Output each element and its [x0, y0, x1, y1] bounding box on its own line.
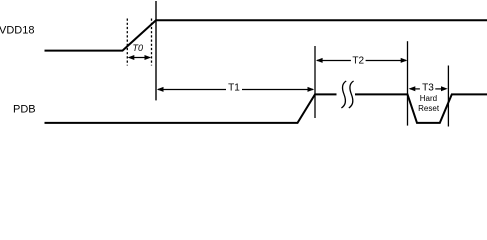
marker line at PDB fall (T2 end / T3 start) — [407, 41, 409, 125]
svg-text:T0: T0 — [133, 43, 144, 53]
label Hard Reset — [418, 94, 440, 113]
svg-text:PDB: PDB — [13, 103, 36, 115]
marker line at PDB recover (T3 end) — [447, 66, 449, 127]
wire VDD18 waveform — [45, 20, 487, 50]
wire PDB waveform left (low, rise, high to break) — [45, 94, 337, 123]
svg-text:VDD18: VDD18 — [0, 25, 34, 37]
svg-text:Reset: Reset — [418, 104, 440, 113]
marker line at VDD18 high (T1 start) — [155, 1, 157, 100]
dashed marker line t0 start — [126, 19, 128, 66]
dimension arrow T1 — [157, 87, 314, 92]
dimension arrow T0 — [128, 55, 152, 60]
svg-text:T3: T3 — [422, 83, 434, 94]
dashed marker line t0 end — [151, 19, 153, 66]
wire PDB waveform right (high, hard-reset dip, high) — [355, 94, 487, 123]
break squiggle 2 — [349, 81, 354, 108]
dimension arrow T2 — [316, 58, 408, 63]
break squiggle 1 — [341, 81, 346, 108]
svg-text:T2: T2 — [352, 56, 364, 67]
dimension arrow T3 — [409, 86, 448, 91]
svg-text:T1: T1 — [228, 82, 240, 93]
svg-text:Hard: Hard — [420, 94, 437, 103]
marker line at PDB rise (T1 end / T2 start) — [314, 46, 316, 118]
